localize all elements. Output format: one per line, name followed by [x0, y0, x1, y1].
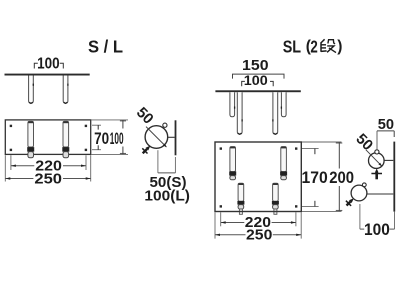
dimension 100 (pin spacing, left top view) [34, 63, 63, 68]
pin right (left top view) [63, 76, 68, 104]
dimension 220 (right plate) [221, 222, 296, 224]
extension lines right of right plate [302, 142, 342, 211]
screw holes (right plate corners) [220, 147, 298, 207]
extension below plate (left side view) [174, 157, 176, 173]
dimension 250 (left plate) [5, 178, 90, 180]
svg-text:200: 200 [329, 169, 354, 187]
svg-text:250: 250 [34, 172, 62, 188]
dimension 50 line (right side view top) [377, 130, 394, 132]
svg-text:100: 100 [244, 72, 268, 88]
lower small ring (right side view) [362, 183, 366, 187]
kanji dan (stage) [321, 39, 336, 52]
dimension 70 ticks (left plate height inner) [97, 125, 99, 150]
plate edge line (left side view) [175, 120, 177, 155]
lower slot with bolt, left (right plate) [237, 183, 244, 214]
dimension 250 (right plate) [215, 234, 301, 236]
diameter line (left side view) [146, 127, 166, 147]
svg-text:250: 250 [246, 227, 272, 243]
svg-text:100: 100 [37, 55, 60, 72]
extension below lower circle (right side view) [359, 204, 361, 229]
svg-text:2: 2 [310, 36, 318, 56]
dimension 100 line (right side view bottom) [360, 228, 395, 230]
outer pin right (right top view) [281, 92, 286, 117]
outer pin left (right top view) [230, 92, 235, 117]
plate edge line (right side view) [393, 142, 395, 212]
svg-text:50: 50 [352, 130, 376, 154]
inner pin right (right top view) [273, 92, 278, 134]
projection dimension line (left side view) [158, 172, 176, 174]
mounting plate (right front view) [215, 142, 301, 212]
extension below circle (left side view) [157, 150, 159, 173]
upper bar circle (right side view) [369, 153, 385, 169]
upper slot with bolt, right (right plate) [280, 147, 287, 180]
slot with bolt, left (left plate) [27, 121, 34, 157]
inner pin left (right top view) [237, 92, 242, 134]
dimension 170 ticks (right plate) [314, 148, 316, 206]
bar circle (left side view) [145, 126, 168, 149]
upper dagger arrow (right side view) [371, 168, 382, 179]
extension lines below right plate [215, 212, 301, 238]
dimension arrow dagger (left side view) [142, 146, 150, 154]
svg-text:S / L: S / L [88, 37, 123, 57]
small ring (left side view) [163, 123, 167, 127]
upper slot with bolt, left (right plate) [229, 147, 236, 180]
wall line (left top view) [5, 74, 90, 76]
svg-text:70: 70 [94, 129, 109, 148]
upper small ring (right side view) [375, 150, 379, 154]
extension below plate (right side view) [394, 212, 396, 230]
lower dagger arrow (right side view) [346, 198, 354, 206]
dimension 100 line (left plate height outer) [122, 120, 124, 154]
dimension 200 line (right plate height) [338, 142, 340, 211]
lower slot with bolt, right (right plate) [272, 183, 279, 214]
dimension 100 (inner pin spacing) [242, 81, 274, 86]
svg-text:SL: SL [283, 36, 302, 56]
connector bar to plate (left side view) [168, 136, 175, 138]
svg-text:100: 100 [110, 129, 124, 148]
lower bar circle (right side view) [351, 185, 367, 201]
extension lines below left plate [5, 155, 90, 181]
dimension 220 (left plate) [11, 165, 86, 167]
upper connector (right side view) [384, 159, 393, 161]
wall line (right top view) [215, 90, 300, 92]
extension lines right of left plate [91, 120, 128, 154]
svg-text:170: 170 [302, 169, 328, 187]
screw holes (left plate corners) [10, 125, 87, 151]
lower connector (right side view) [367, 193, 393, 195]
svg-text:): ) [337, 38, 342, 55]
plate border (right front view) [215, 142, 301, 212]
svg-text:100(L): 100(L) [144, 189, 190, 205]
pin left (left top view) [29, 76, 34, 104]
svg-text:100: 100 [364, 220, 390, 239]
mounting plate (left front view) [5, 120, 90, 154]
slot with bolt, right (left plate) [62, 121, 69, 157]
upper diameter line (right side view) [366, 150, 382, 166]
svg-text:50: 50 [133, 104, 157, 128]
